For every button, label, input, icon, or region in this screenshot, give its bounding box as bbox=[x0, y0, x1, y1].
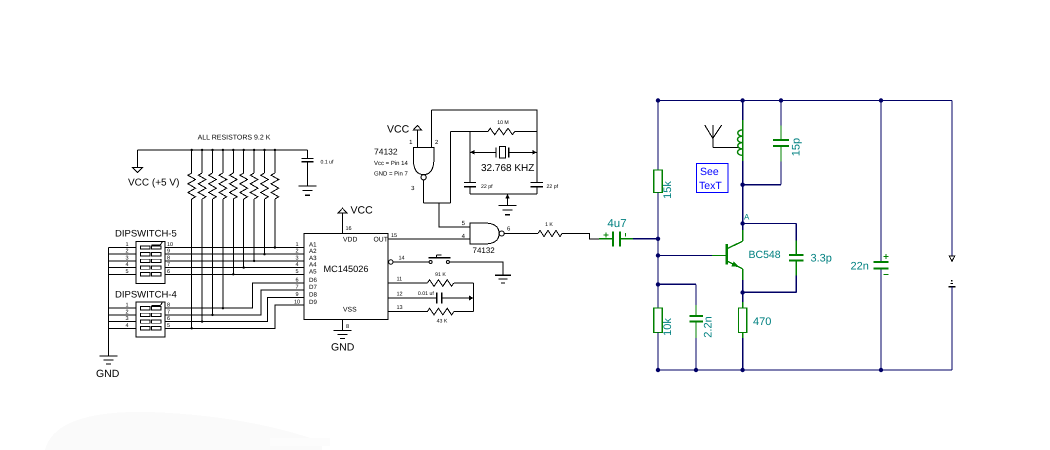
svg-text:74132: 74132 bbox=[374, 147, 398, 157]
capacitor 22pf right bbox=[531, 181, 543, 183]
wire 4u7 to rail bbox=[633, 238, 658, 240]
svg-text:0.1 uf: 0.1 uf bbox=[321, 160, 335, 166]
svg-text:3: 3 bbox=[125, 255, 128, 261]
wire CTC pin12 bbox=[388, 297, 437, 299]
resistor 43 K bbox=[427, 308, 453, 315]
wire gate1 pin2 bbox=[431, 110, 433, 147]
svg-text:0.01 uf: 0.01 uf bbox=[418, 291, 434, 297]
svg-text:D6: D6 bbox=[309, 277, 317, 284]
resistor 1 K bbox=[538, 230, 562, 236]
wire VCC bus drop bbox=[137, 150, 139, 168]
svg-text:3: 3 bbox=[125, 316, 128, 322]
connector battery mark bbox=[951, 280, 953, 282]
wire gate1 output down bbox=[423, 180, 425, 203]
power VCC arrow above IC bbox=[338, 208, 347, 213]
junction dot base rail bbox=[656, 253, 660, 257]
svg-text:1: 1 bbox=[295, 242, 298, 248]
svg-text:3.3p: 3.3p bbox=[811, 253, 832, 265]
capacitor 3.3p bbox=[743, 223, 797, 225]
wire gate1 output horiz bbox=[424, 202, 451, 204]
wire left rail mid bbox=[657, 193, 659, 309]
wire net D8 DIPSWITCH-4 to IC bbox=[165, 298, 304, 322]
crystal Y1 32.768 KHZ bbox=[495, 147, 497, 157]
nand gate U2B 74132 bbox=[470, 223, 499, 244]
wire net A1 DIPSWITCH-5 to IC bbox=[165, 247, 304, 249]
ground below 0.1uf cap bbox=[299, 185, 317, 187]
wire emitter lower bbox=[742, 280, 744, 293]
junction dot rail top left bbox=[656, 98, 660, 102]
resistor 9.2K R7 (D7 pull-up) bbox=[212, 150, 214, 173]
svg-text:4: 4 bbox=[125, 323, 128, 329]
resistor 10 M bbox=[488, 128, 515, 134]
svg-text:15p: 15p bbox=[791, 138, 803, 156]
svg-text:470: 470 bbox=[753, 316, 771, 328]
junction arrow crystal right bbox=[532, 150, 537, 155]
wire DIPSWITCH-5 pin 1 left bbox=[109, 247, 137, 249]
svg-text:VCC: VCC bbox=[351, 205, 374, 217]
svg-text:DIPSWITCH-5: DIPSWITCH-5 bbox=[115, 229, 177, 240]
capacitor 22n bbox=[880, 101, 882, 262]
resistor 9.2K R1 (A1 pull-up) bbox=[274, 150, 276, 173]
wire gate2 out to 1K bbox=[504, 233, 538, 235]
svg-text:A: A bbox=[744, 213, 750, 222]
svg-text:2: 2 bbox=[125, 249, 128, 255]
resistor 91 K bbox=[427, 280, 453, 287]
svg-text:91 K: 91 K bbox=[435, 272, 446, 278]
wire 0.01uf to node bbox=[442, 297, 474, 299]
junction dot coil bottom bbox=[740, 183, 744, 187]
wire RS pin11 bbox=[388, 282, 427, 284]
junction dot 15p top bbox=[779, 98, 783, 102]
junction arrow CTC node bbox=[469, 296, 474, 301]
wire right rail upper bbox=[951, 101, 953, 257]
svg-text:32.768 KHZ: 32.768 KHZ bbox=[481, 163, 534, 174]
svg-text:VCC (+5 V): VCC (+5 V) bbox=[128, 178, 179, 189]
wire left rail upper bbox=[657, 101, 659, 171]
wire 91K to node bbox=[454, 282, 474, 284]
IC U1 MC145026 body bbox=[304, 234, 388, 320]
svg-text:2: 2 bbox=[125, 309, 128, 315]
wire osc left vertical bbox=[469, 132, 471, 183]
wire pushbutton to ground bbox=[449, 262, 503, 275]
svg-text:3: 3 bbox=[295, 255, 298, 261]
svg-text:43 K: 43 K bbox=[437, 319, 448, 325]
junction dot 2.2n bottom bbox=[694, 368, 698, 372]
resistor 9.2K R8 (D8 pull-up) bbox=[201, 150, 203, 173]
svg-text:8: 8 bbox=[346, 324, 349, 330]
svg-text:2.2n: 2.2n bbox=[703, 316, 715, 337]
wire DIPSWITCH-4 pin 4 left bbox=[109, 327, 137, 329]
wire DIPSWITCH-5 pin 2 left bbox=[109, 253, 137, 255]
wire net A5 DIPSWITCH-5 to IC bbox=[165, 273, 304, 275]
wire right rail lower bbox=[951, 287, 953, 370]
svg-text:OUT: OUT bbox=[374, 237, 388, 244]
wire net A4 DIPSWITCH-5 to IC bbox=[165, 267, 304, 269]
svg-text:22 pf: 22 pf bbox=[547, 184, 559, 190]
svg-text:4u7: 4u7 bbox=[607, 218, 626, 230]
inductor L1 coil bbox=[742, 101, 744, 121]
resistor R 470 bbox=[739, 308, 747, 333]
svg-text:9: 9 bbox=[295, 292, 298, 298]
resistor R 10k bbox=[654, 308, 662, 333]
svg-text:GND = Pin 7: GND = Pin 7 bbox=[374, 171, 409, 178]
wire to osc ground bbox=[507, 194, 509, 206]
wire feedback vertical bbox=[449, 132, 451, 203]
wire net A2 DIPSWITCH-5 to IC bbox=[165, 253, 304, 255]
svg-text:MC145026: MC145026 bbox=[324, 264, 369, 274]
svg-text:VCC: VCC bbox=[387, 124, 410, 136]
wire net D9 DIPSWITCH-4 to IC bbox=[165, 305, 304, 329]
svg-text:16: 16 bbox=[346, 226, 352, 232]
svg-text:11: 11 bbox=[397, 277, 403, 283]
junction dot bias rail bbox=[656, 282, 660, 286]
svg-text:15: 15 bbox=[391, 233, 397, 239]
wire crystal right bbox=[509, 151, 537, 153]
svg-text:VSS: VSS bbox=[343, 307, 357, 314]
capacitor C1 4u7 bbox=[599, 238, 612, 240]
resistor 9.2K R2 (A2 pull-up) bbox=[264, 150, 266, 173]
ground dipswitch bus bbox=[100, 355, 118, 357]
wire emitter to 470 bbox=[742, 293, 744, 303]
capacitor 15p bbox=[780, 161, 782, 184]
svg-text:GND: GND bbox=[96, 368, 120, 380]
wire 470 to rail bbox=[742, 333, 744, 339]
wire 10M row right bbox=[515, 131, 537, 133]
svg-text:GND: GND bbox=[331, 342, 355, 354]
junction dot coil top bbox=[740, 98, 744, 102]
wire DIPSWITCH-4 pin 1 left bbox=[109, 307, 137, 309]
svg-text:10 M: 10 M bbox=[497, 120, 509, 126]
junction dot 22n top bbox=[879, 98, 883, 102]
wire left rail lower bbox=[657, 333, 659, 371]
svg-text:15k: 15k bbox=[662, 181, 674, 199]
wire DIPSWITCH-5 pin 4 left bbox=[109, 267, 137, 269]
wire 10M row left bbox=[450, 131, 488, 133]
wire crystal left bbox=[470, 151, 496, 153]
wire DIPSWITCH-5 pin 5 left bbox=[109, 273, 137, 275]
junction arrow osc ground bbox=[505, 194, 510, 199]
svg-text:7: 7 bbox=[295, 285, 298, 291]
wire RTC pin13 bbox=[388, 311, 427, 313]
svg-text:5: 5 bbox=[125, 269, 128, 275]
wire DIPSWITCH-5 pin 3 left bbox=[109, 260, 137, 262]
svg-text:VDD: VDD bbox=[343, 237, 357, 244]
resistor 9.2K R5 (A5 pull-up) bbox=[232, 150, 234, 173]
ground below IC bbox=[334, 330, 352, 332]
svg-text:DIPSWITCH-4: DIPSWITCH-4 bbox=[115, 290, 177, 301]
capacitor 22pf left bbox=[464, 181, 476, 183]
ground pushbutton bbox=[495, 274, 511, 276]
wire net D6 DIPSWITCH-4 to IC bbox=[165, 283, 304, 308]
wire RC node vertical bbox=[473, 283, 475, 312]
antenna bbox=[712, 125, 714, 138]
see text box bbox=[697, 164, 729, 193]
power VCC (+5 V) arrow bbox=[133, 168, 143, 173]
capacitor 0.01uf bbox=[436, 293, 438, 304]
resistor 9.2K R6 (D6 pull-up) bbox=[222, 150, 224, 173]
svg-text:12: 12 bbox=[397, 292, 403, 298]
power VCC arrow gate1 bbox=[413, 125, 422, 130]
wire base bbox=[658, 255, 712, 257]
junction arrow crystal left bbox=[470, 150, 475, 155]
dipswitch DIPSWITCH-4 bbox=[136, 302, 165, 337]
wire node A vertical bbox=[742, 185, 744, 224]
junction dot 22n bottom bbox=[879, 368, 883, 372]
transistor Q1 BC548 bbox=[725, 244, 728, 265]
svg-text:1: 1 bbox=[125, 303, 128, 309]
svg-text:BC548: BC548 bbox=[749, 249, 781, 261]
svg-text:13: 13 bbox=[397, 305, 403, 311]
wire bias to 2.2n bbox=[658, 283, 696, 285]
connector arrow down bbox=[949, 256, 955, 261]
svg-text:4: 4 bbox=[295, 262, 298, 268]
wire to gate2 pin5 bbox=[439, 203, 470, 227]
svg-text:A5: A5 bbox=[309, 268, 317, 275]
wire net D7 DIPSWITCH-4 to IC bbox=[165, 290, 304, 315]
wire bottom rail bbox=[658, 369, 952, 371]
svg-text:4: 4 bbox=[125, 262, 128, 268]
wire dipswitch ground bus bbox=[108, 248, 110, 357]
svg-text:D7: D7 bbox=[309, 284, 317, 291]
junction dot 470 bottom bbox=[740, 368, 744, 372]
junction dot rail bottom left bbox=[656, 368, 660, 372]
capacitor 2.2n bbox=[695, 305, 697, 316]
svg-text:14: 14 bbox=[399, 256, 405, 262]
resistor 9.2K R9 (D9 pull-up) bbox=[191, 150, 193, 173]
svg-text:10k: 10k bbox=[662, 318, 674, 336]
wire VDD pin16 bbox=[342, 213, 344, 234]
wire osc bottom bbox=[470, 193, 537, 195]
svg-text:ALL RESISTORS 9.2 K: ALL RESISTORS 9.2 K bbox=[198, 135, 271, 142]
svg-text:2: 2 bbox=[295, 249, 298, 255]
svg-text:1 K: 1 K bbox=[545, 222, 553, 228]
wire osc top loop bbox=[432, 110, 537, 182]
svg-text:See: See bbox=[700, 166, 719, 178]
svg-text:1: 1 bbox=[125, 242, 128, 248]
svg-text:22n: 22n bbox=[851, 261, 869, 273]
capacitor C 0.1uf bbox=[307, 150, 309, 159]
junction dot emitter bbox=[740, 290, 744, 294]
wire VSS pin8 bbox=[342, 320, 344, 331]
svg-text:22 pf: 22 pf bbox=[481, 184, 493, 190]
wire 43K to node bbox=[454, 311, 474, 313]
svg-text:D8: D8 bbox=[309, 292, 317, 299]
junction dot 4u7 rail bbox=[656, 237, 660, 241]
svg-text:Vcc = Pin 14: Vcc = Pin 14 bbox=[374, 160, 409, 167]
wire OUT pin15 to gate pin4 bbox=[388, 238, 470, 240]
wire TE to pushbutton bbox=[393, 261, 429, 263]
svg-text:TexT: TexT bbox=[699, 180, 722, 192]
junction dot node A bbox=[740, 221, 744, 225]
resistor 9.2K R4 (A4 pull-up) bbox=[243, 150, 245, 173]
svg-text:10: 10 bbox=[294, 299, 300, 305]
pushbutton S1 bbox=[429, 261, 432, 264]
nand gate U2A 74132 bbox=[413, 147, 434, 174]
ground oscillator bbox=[499, 205, 517, 207]
svg-text:5: 5 bbox=[295, 269, 298, 275]
smudge bbox=[45, 412, 322, 450]
pin TE bubble bbox=[389, 260, 393, 264]
wire VCC pull-up bus bbox=[138, 149, 308, 151]
svg-text:74132: 74132 bbox=[473, 246, 496, 255]
svg-text:6: 6 bbox=[295, 278, 298, 284]
wire coil bottom to 15p bbox=[743, 184, 781, 186]
wire DIPSWITCH-4 pin 3 left bbox=[109, 321, 137, 323]
wire net A3 DIPSWITCH-5 to IC bbox=[165, 260, 304, 262]
wire collector to node A bbox=[742, 224, 744, 231]
resistor 9.2K R3 (A3 pull-up) bbox=[253, 150, 255, 173]
wire DIPSWITCH-4 pin 2 left bbox=[109, 314, 137, 316]
wire top rail bbox=[658, 100, 952, 102]
dipswitch DIPSWITCH-5 bbox=[136, 242, 165, 284]
wire gate1 pin1 bbox=[416, 130, 418, 147]
svg-text:D9: D9 bbox=[309, 299, 317, 306]
wire 1K to 4u7 bbox=[562, 234, 600, 239]
resistor R 15k bbox=[657, 170, 659, 193]
